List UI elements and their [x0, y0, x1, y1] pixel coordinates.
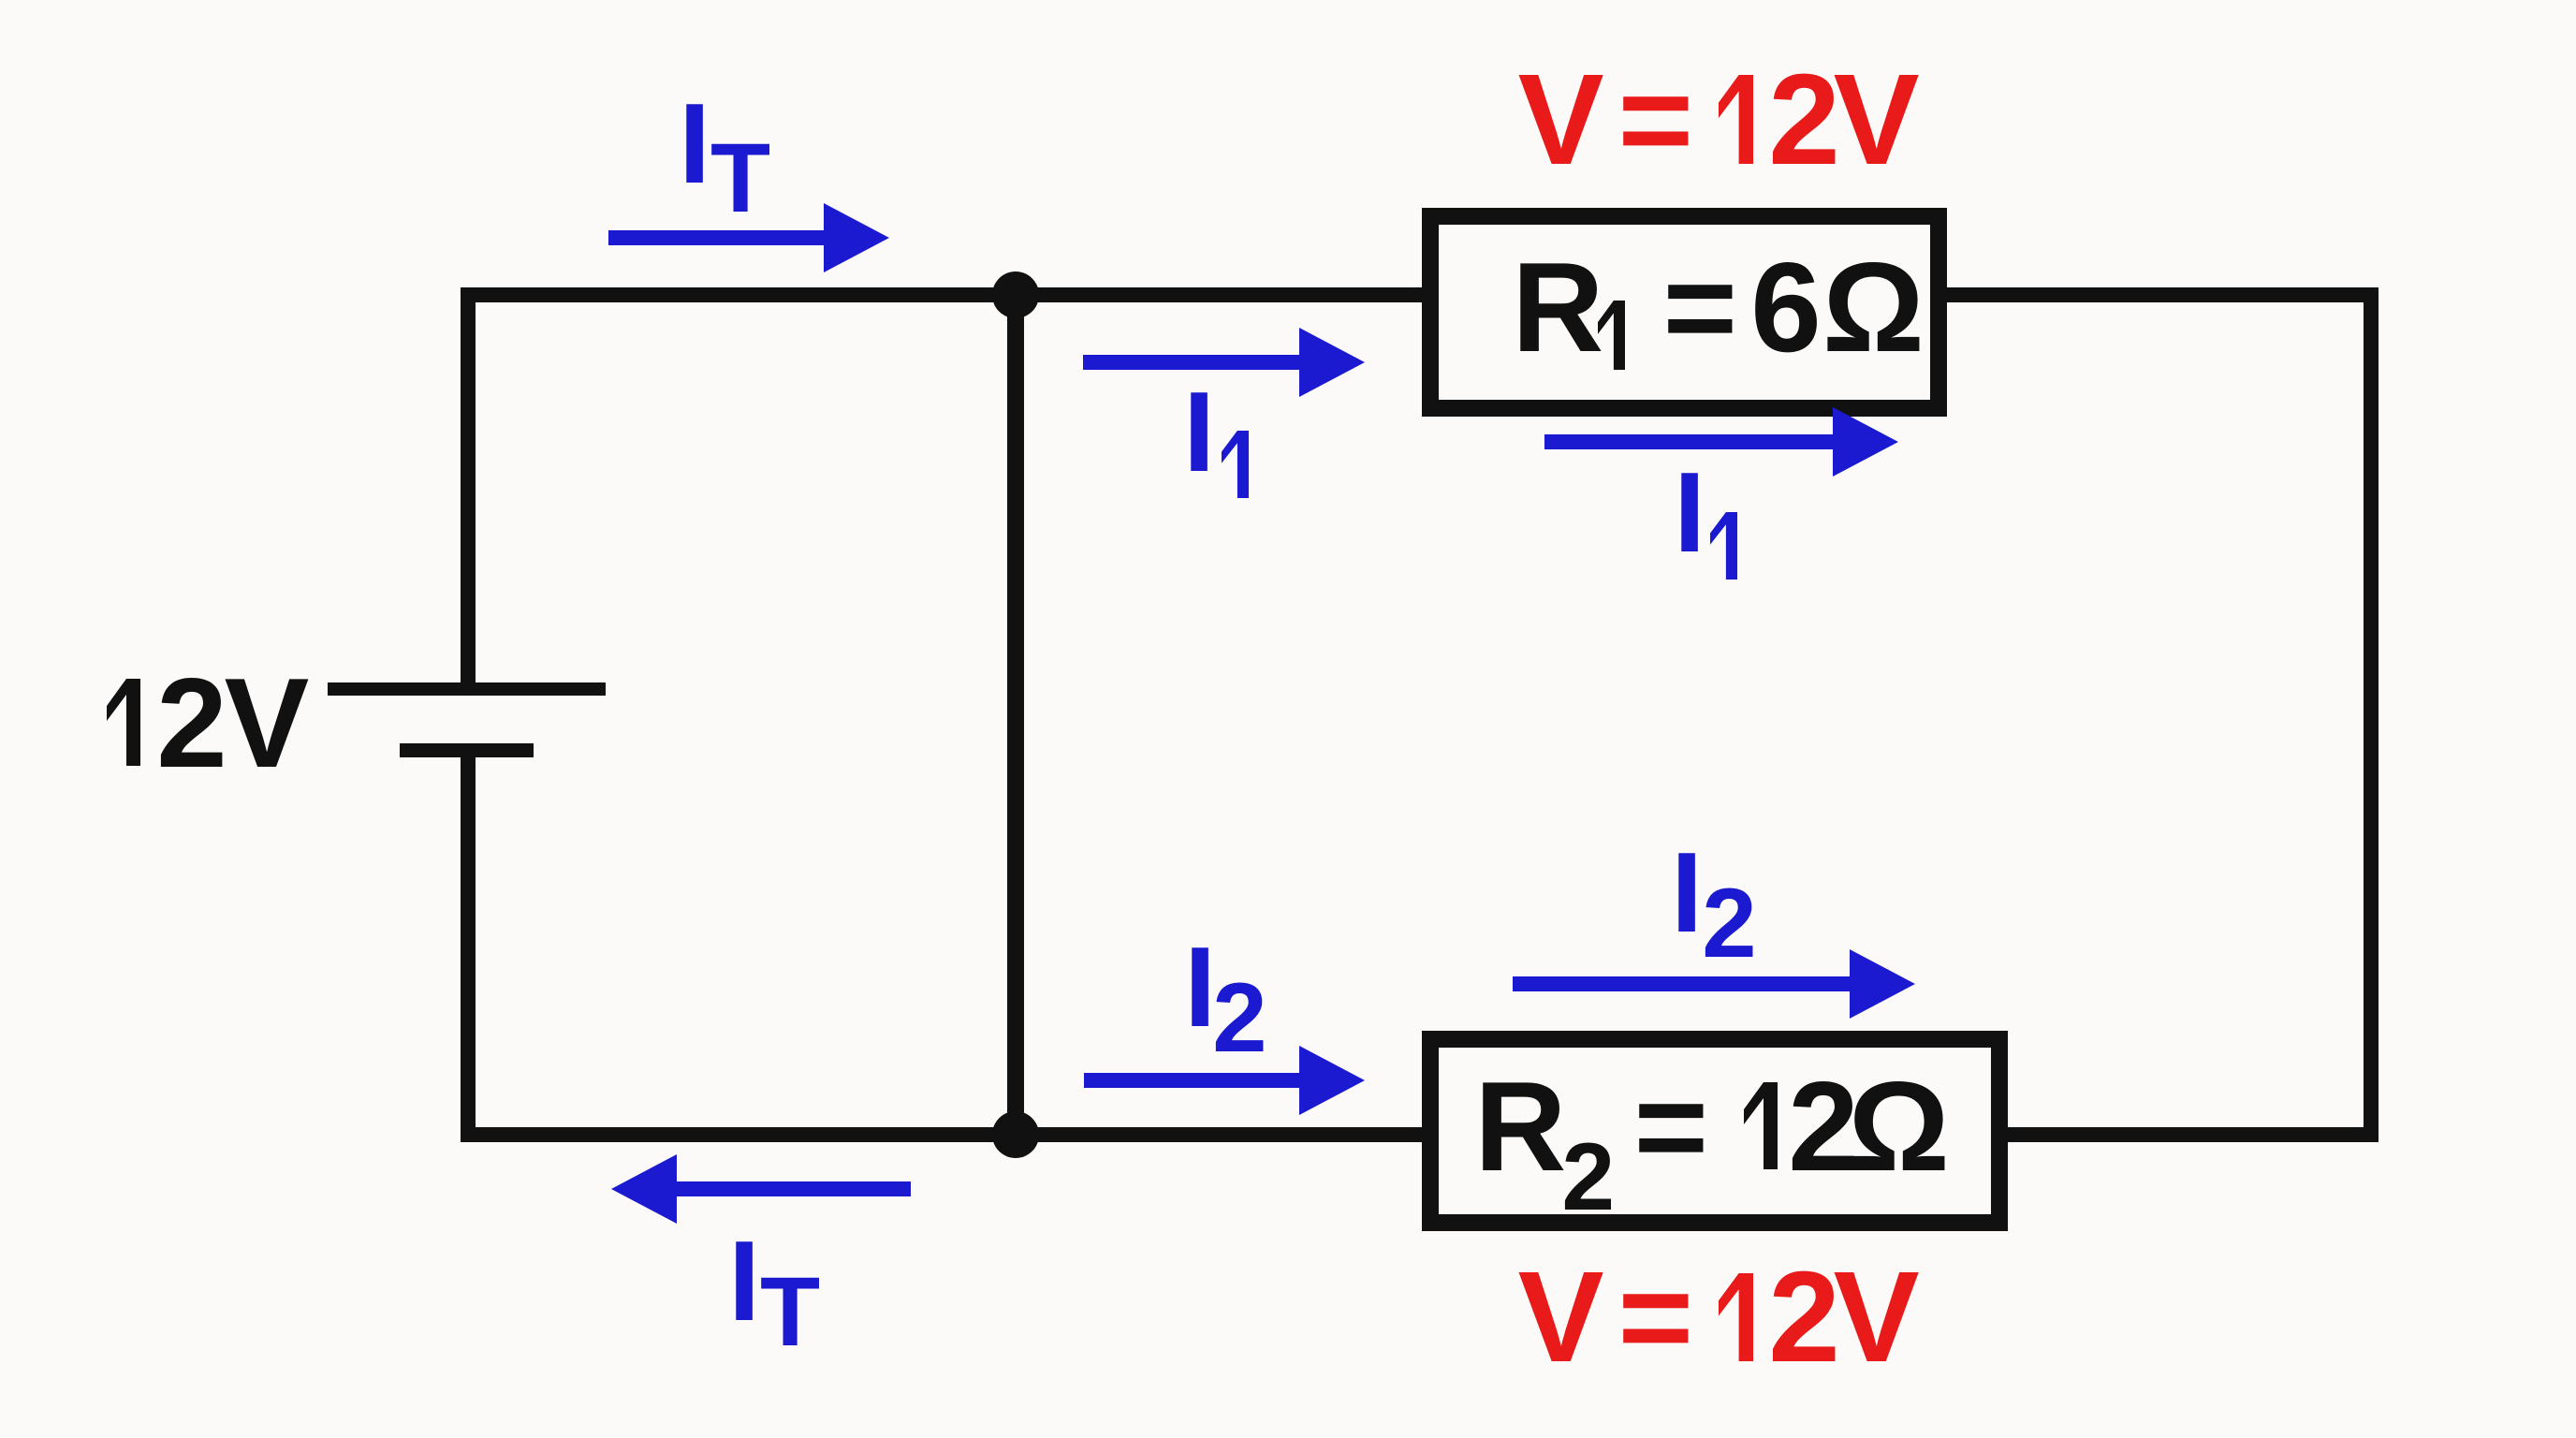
wire right vertical	[2364, 287, 2378, 1142]
voltage label bottom digit 1	[1719, 1273, 1753, 1361]
current arrow I2 into R2	[1084, 1046, 1365, 1115]
resistor R2 value ohm	[1848, 1063, 1950, 1190]
resistor R2 value digit 1	[1744, 1082, 1778, 1169]
wire left vertical lower	[461, 757, 476, 1142]
battery label 12V digit 2	[156, 659, 227, 786]
current label IT return letter I	[728, 1224, 760, 1338]
current arrow IT top	[608, 203, 889, 272]
current arrow IT return	[611, 1154, 911, 1224]
voltage label top digit 1	[1719, 75, 1753, 164]
wire top rail	[461, 287, 2378, 302]
node B bottom junction dot	[992, 1111, 1039, 1158]
voltage label bottom digit 2	[1768, 1253, 1840, 1382]
battery 12V negative plate	[400, 743, 534, 757]
voltage label top V unit	[1834, 55, 1920, 184]
resistor R1 label equals	[1663, 243, 1737, 371]
voltage label bottom equals	[1618, 1253, 1694, 1382]
resistor R2 label R	[1474, 1063, 1566, 1190]
resistor R1 value ohm	[1822, 243, 1925, 371]
battery label 12V letter V	[225, 659, 310, 786]
resistor R1 box	[1422, 208, 1947, 417]
resistor R1 label R	[1512, 243, 1603, 371]
current label I1 after R1 subscript 1	[1710, 512, 1737, 580]
voltage label bottom V unit	[1834, 1253, 1920, 1382]
resistor R2 value digit 2	[1788, 1063, 1859, 1190]
current label I2 into R2 subscript 2	[1212, 969, 1266, 1067]
current label I1 after R1 letter I	[1674, 455, 1705, 569]
current label I2 into R2 letter I	[1184, 930, 1216, 1044]
current arrow I1 after R1	[1544, 407, 1898, 477]
resistor R2 label subscript 2	[1561, 1129, 1615, 1225]
voltage label top digit 2	[1768, 55, 1840, 184]
current label IT return subscript T	[760, 1263, 820, 1361]
current label I2 above R2 subscript 2	[1702, 874, 1756, 973]
resistor R2 label equals	[1634, 1063, 1708, 1190]
resistor R2 box	[1422, 1031, 2008, 1231]
voltage label bottom V	[1518, 1253, 1604, 1382]
wire bottom rail	[461, 1127, 2378, 1142]
voltage label top V	[1518, 55, 1604, 184]
voltage label top equals	[1618, 55, 1694, 184]
current label I1 into R1 letter I	[1183, 374, 1215, 489]
current label IT top subscript T	[710, 129, 770, 227]
battery 12V positive plate	[328, 682, 606, 696]
current label I1 into R1 subscript 1	[1222, 431, 1249, 498]
current arrow I1 into R1	[1083, 328, 1365, 397]
node A top junction dot	[992, 271, 1039, 318]
current arrow I2 above R2	[1513, 949, 1915, 1019]
battery label 12V digit 1	[107, 679, 140, 766]
wire left vertical upper	[461, 287, 476, 682]
wire middle junction column	[1007, 287, 1024, 1142]
resistor R1 label subscript 1	[1598, 301, 1625, 370]
current label IT top letter I	[679, 86, 710, 200]
current label I2 above R2 letter I	[1671, 835, 1703, 949]
resistor R1 value digit 6	[1750, 243, 1822, 371]
